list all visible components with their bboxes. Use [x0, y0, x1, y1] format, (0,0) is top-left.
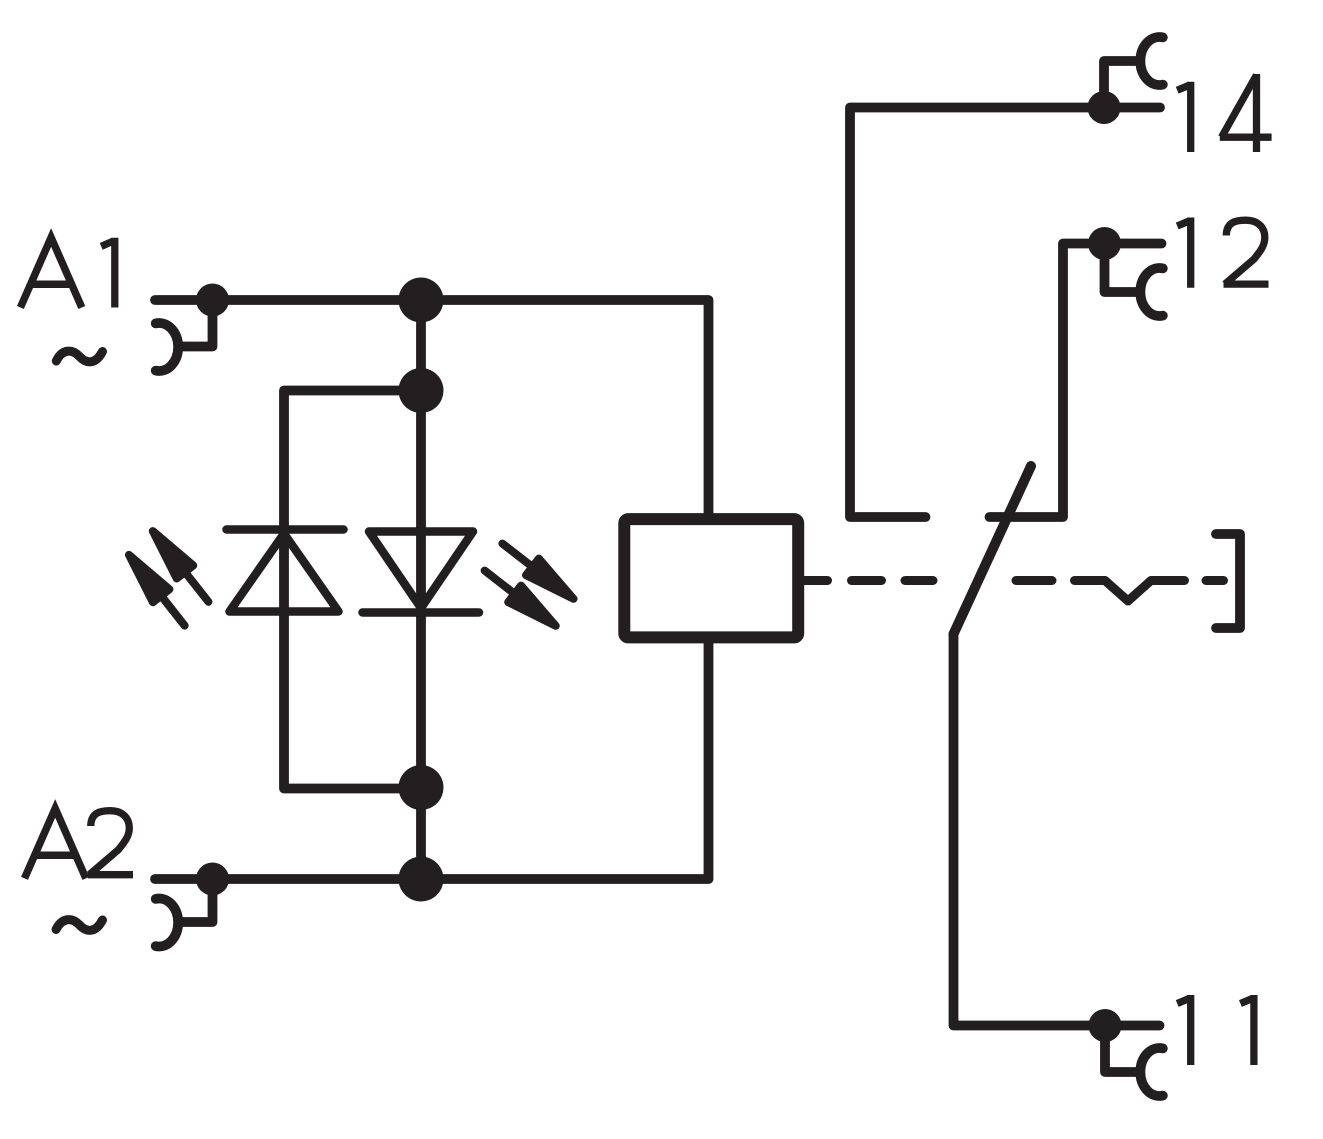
terminal label 14: [1177, 74, 1271, 152]
junction dot A1 row / trunk: [399, 278, 444, 323]
terminal dot A2: [196, 863, 229, 896]
terminal label A1: [20, 238, 114, 308]
wire A2 row to coil: [155, 642, 709, 879]
wire from contact 14: [850, 108, 1160, 518]
junction dot LED branch top: [399, 368, 444, 413]
manual actuator bracket: [1216, 534, 1240, 628]
terminal label 12: [1177, 218, 1268, 288]
junction dot LED branch bottom: [399, 765, 444, 810]
wire to terminal 11: [954, 634, 1160, 1026]
terminal dot A1: [196, 284, 229, 317]
terminal label A2: [25, 808, 134, 878]
wire A1 row to coil: [155, 300, 709, 514]
junction dot A2 row: [399, 857, 444, 902]
terminal label 11: [1177, 995, 1254, 1065]
wire LED trunk upper: [416, 300, 426, 391]
clamp terminal 11: [1105, 1026, 1163, 1097]
relay coil K1: [624, 519, 798, 637]
AC symbol at A2: [56, 920, 103, 931]
mechanical link dashed (contact side) with detent: [1016, 581, 1224, 602]
light arrows of LED D1: [121, 525, 217, 633]
terminal dot 11: [1089, 1009, 1122, 1042]
terminal dot 12: [1088, 227, 1121, 260]
light arrows of LED D2: [478, 535, 580, 634]
switch arm changeover contact: [954, 466, 1032, 634]
mechanical link dashed (coil side): [804, 576, 934, 585]
clamp terminal A2: [156, 879, 213, 947]
clamp terminal A1: [156, 300, 213, 371]
wire from contact 12: [990, 244, 1162, 518]
wire right LED trunk: [416, 391, 426, 880]
wire left LED branch: [284, 391, 421, 789]
LED D1 (left): [227, 530, 344, 612]
clamp terminal 12: [1105, 244, 1163, 317]
terminal dot 14: [1088, 91, 1121, 124]
LED D2 (right): [363, 532, 480, 613]
AC symbol at A1: [56, 351, 102, 362]
clamp terminal 14: [1104, 37, 1163, 108]
